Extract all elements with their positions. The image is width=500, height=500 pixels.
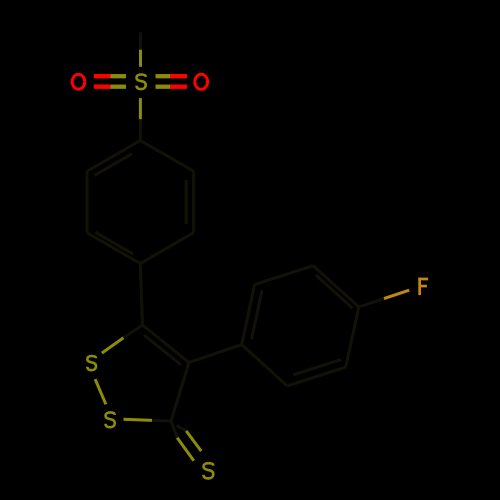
wire methyl C-S bond olive half xyxy=(139,50,142,67)
wire C_F to F bond gold half xyxy=(384,290,409,298)
node O2 right oxygen label xyxy=(195,74,208,89)
wire S=O right double bond upper line xyxy=(156,74,188,78)
node O1 left oxygen label xyxy=(72,74,85,89)
wire S2 to C3 bond olive half xyxy=(124,419,153,420)
wire C3=S3 thione double bond line B dark connector xyxy=(177,426,187,431)
wire ring1 V4 to dithiole C5 bond dark xyxy=(140,264,142,326)
wire S=O left double bond upper line xyxy=(94,74,126,78)
wire C3=S3 thione double bond line B olive half xyxy=(186,431,201,451)
wire methyl C-S bond dark half xyxy=(139,32,142,50)
wire S0 to ring ipso bond olive half xyxy=(139,98,142,119)
wire S2 to C3 bond dark half xyxy=(152,419,171,423)
node S2 dithiole sulfur label xyxy=(106,412,115,427)
wire C5 to S1 bond dark half xyxy=(123,325,142,338)
wire C3=S3 thione double bond line A olive half xyxy=(177,438,194,461)
wire S1-S2 bond olive xyxy=(95,379,106,404)
node benzene ring 2 (fluorophenyl) dark edges xyxy=(242,266,359,386)
wire C5 to S1 bond olive half xyxy=(102,338,124,353)
node S1 dithiole sulfur label xyxy=(87,356,96,370)
node dithiole ring dark edges C5-C4, C4-C3, C4=C5 inner xyxy=(143,325,190,421)
wire C4 to fluorophenyl ipso bond dark xyxy=(189,345,242,363)
wire S0 to ring ipso bond dark half xyxy=(139,119,142,140)
wire S=O left double bond lower line xyxy=(94,85,126,89)
wire S=O right double bond lower line xyxy=(156,85,188,89)
wire C3=S3 thione double bond line A dark connector xyxy=(171,421,177,438)
node benzene ring 1 (methylsulfonylphenyl) dark edges xyxy=(87,141,194,264)
node S3 thione sulfur label xyxy=(204,463,214,478)
node F fluorine label xyxy=(418,278,428,296)
node S0 sulfonyl sulfur label xyxy=(137,75,146,90)
wire C_F to F bond dark half xyxy=(359,299,384,307)
